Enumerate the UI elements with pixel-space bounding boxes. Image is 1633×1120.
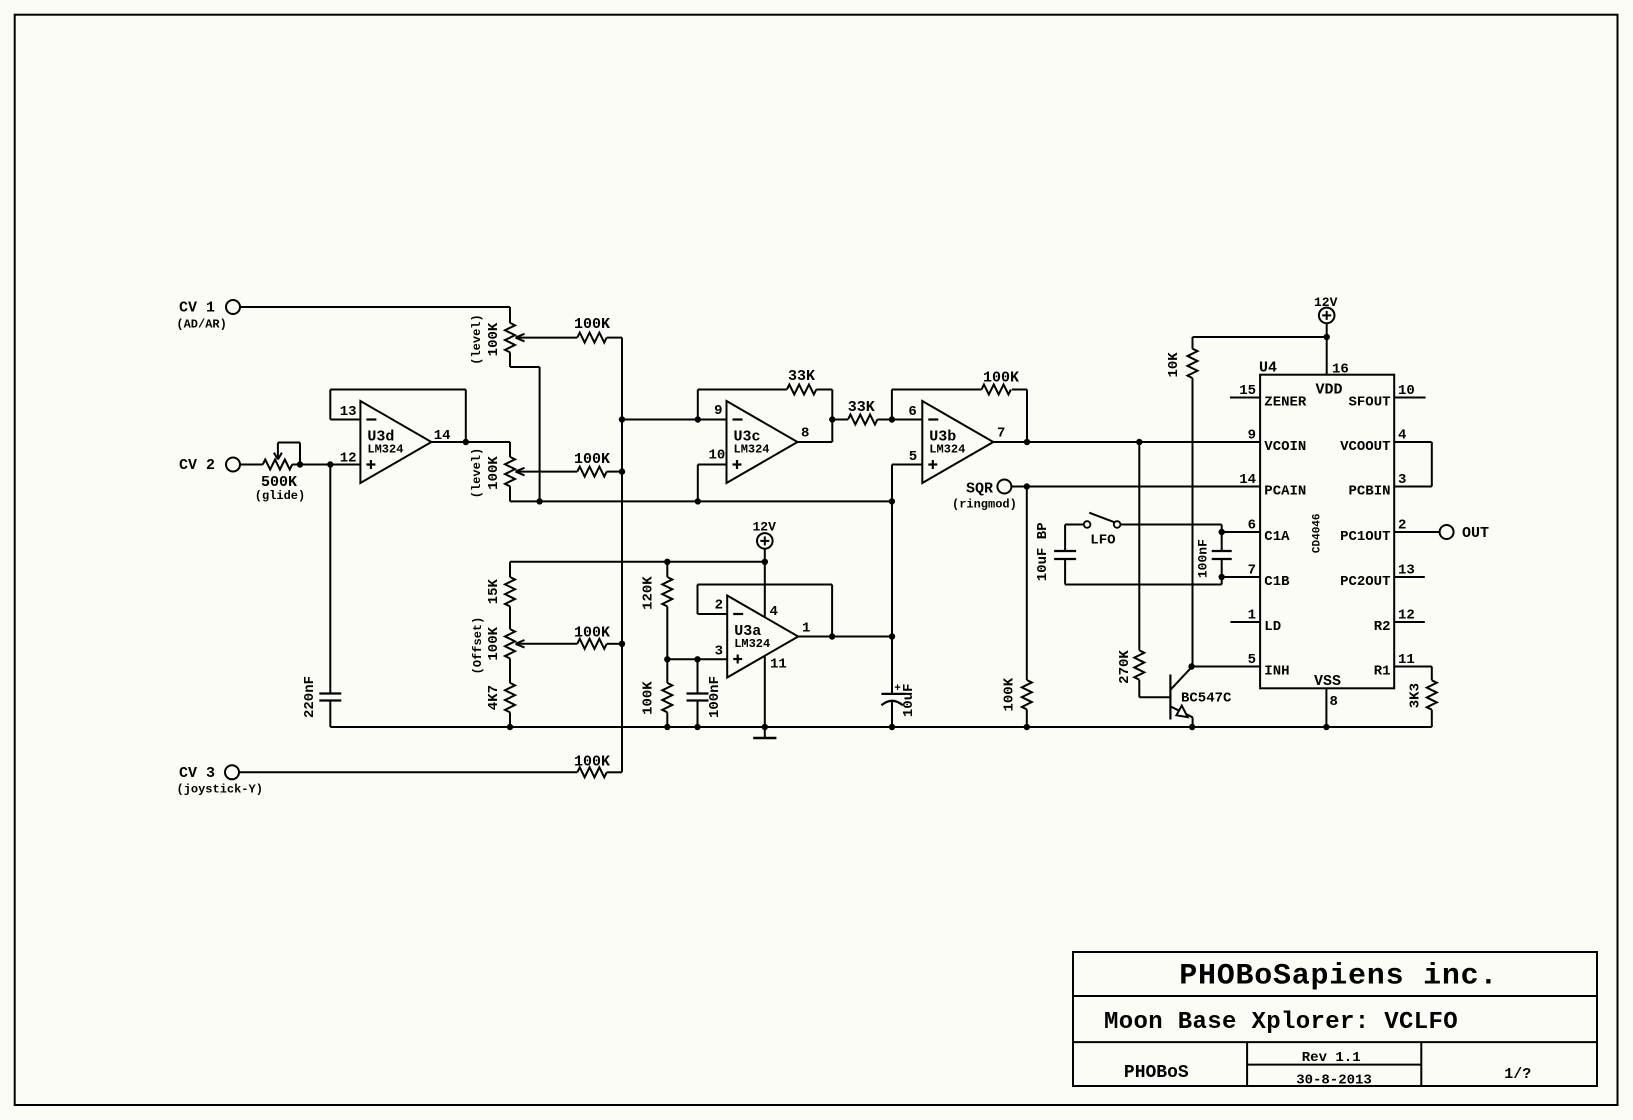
svg-text:R2: R2 [1374,619,1391,635]
svg-text:100K: 100K [1001,677,1017,711]
svg-text:(level): (level) [470,314,484,364]
svg-text:INH: INH [1264,664,1289,680]
svg-text:8: 8 [1330,694,1338,710]
svg-text:PCAIN: PCAIN [1264,484,1306,500]
svg-text:100K: 100K [574,316,610,333]
svg-text:(Offset): (Offset) [471,617,485,675]
svg-text:C1B: C1B [1264,574,1290,590]
svg-text:OUT: OUT [1462,525,1489,542]
svg-text:33K: 33K [788,368,815,385]
svg-text:VCOIN: VCOIN [1264,439,1306,455]
svg-text:7: 7 [997,426,1005,442]
svg-text:U4: U4 [1259,360,1277,377]
svg-text:PHOBoS: PHOBoS [1124,1063,1189,1083]
svg-text:100nF: 100nF [707,676,723,718]
svg-text:3: 3 [715,644,723,660]
svg-text:6: 6 [908,404,916,420]
svg-text:SFOUT: SFOUT [1348,395,1390,411]
svg-text:100K: 100K [486,322,502,356]
svg-text:PHOBoSapiens inc.: PHOBoSapiens inc. [1179,960,1498,994]
svg-text:100K: 100K [486,456,502,490]
svg-text:VCOOUT: VCOOUT [1340,439,1390,455]
svg-text:10K: 10K [1166,352,1182,378]
svg-text:C1A: C1A [1264,529,1290,545]
svg-text:12: 12 [340,451,357,467]
svg-text:LM324: LM324 [734,443,770,457]
svg-text:1: 1 [802,621,810,637]
svg-text:ZENER: ZENER [1264,395,1307,411]
svg-text:CD4046: CD4046 [1311,513,1323,553]
svg-text:Rev 1.1: Rev 1.1 [1302,1050,1361,1066]
svg-text:LFO: LFO [1090,533,1115,549]
svg-text:Moon Base Xplorer: VCLFO: Moon Base Xplorer: VCLFO [1104,1009,1458,1036]
svg-text:LM324: LM324 [367,443,403,457]
svg-text:11: 11 [770,657,787,673]
svg-text:3K3: 3K3 [1407,683,1423,708]
svg-text:270K: 270K [1117,650,1133,684]
svg-text:15K: 15K [486,579,502,605]
svg-text:4: 4 [770,604,778,620]
svg-text:5: 5 [909,449,917,465]
svg-text:VSS: VSS [1314,673,1341,690]
svg-text:(level): (level) [470,448,484,498]
svg-text:CV 2: CV 2 [179,457,215,474]
svg-text:LM324: LM324 [929,443,965,457]
svg-text:1/?: 1/? [1504,1066,1531,1083]
svg-text:100nF: 100nF [1196,539,1211,578]
svg-text:33K: 33K [848,399,875,416]
svg-text:100K: 100K [574,451,610,468]
svg-text:9: 9 [714,403,722,419]
svg-text:PCBIN: PCBIN [1348,484,1390,500]
svg-text:100K: 100K [641,681,657,715]
svg-text:100K: 100K [486,626,502,660]
svg-text:SQR: SQR [966,480,993,497]
svg-text:(joystick-Y): (joystick-Y) [177,783,263,797]
svg-text:14: 14 [1239,472,1256,488]
svg-text:LD: LD [1264,619,1281,635]
svg-text:CV 3: CV 3 [179,765,215,782]
svg-text:PC2OUT: PC2OUT [1340,574,1390,590]
svg-text:BC547C: BC547C [1181,691,1232,707]
svg-text:R1: R1 [1374,664,1391,680]
svg-text:14: 14 [434,428,451,444]
svg-text:13: 13 [340,404,357,420]
svg-text:9: 9 [1248,428,1256,444]
svg-text:100K: 100K [574,753,610,770]
svg-text:10uF BP: 10uF BP [1035,522,1051,581]
svg-text:(ringmod): (ringmod) [952,498,1017,512]
svg-text:VDD: VDD [1316,382,1343,399]
svg-text:30-8-2013: 30-8-2013 [1296,1073,1372,1089]
svg-text:10uF: 10uF [901,683,917,717]
svg-text:(AD/AR): (AD/AR) [176,318,226,332]
svg-text:100K: 100K [983,370,1019,387]
svg-text:(glide): (glide) [255,489,305,503]
svg-text:2: 2 [715,598,723,614]
svg-text:16: 16 [1332,362,1349,378]
svg-text:LM324: LM324 [734,637,770,651]
svg-text:PC1OUT: PC1OUT [1340,529,1390,545]
svg-text:100K: 100K [574,625,610,642]
svg-text:220nF: 220nF [302,676,318,718]
svg-text:10: 10 [708,448,725,464]
svg-text:120K: 120K [641,576,657,610]
svg-text:4K7: 4K7 [486,685,502,710]
svg-text:8: 8 [801,425,809,441]
svg-text:CV 1: CV 1 [179,300,215,317]
